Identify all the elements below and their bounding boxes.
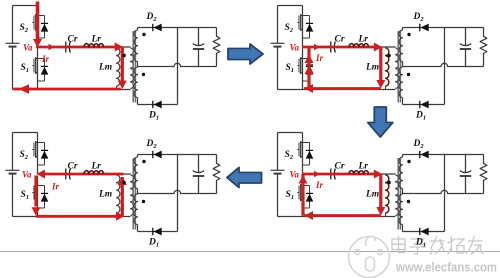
capacitor Co curved plate (stage 2) (460, 44, 471, 46)
red arrowhead on bottom return (305, 211, 314, 220)
wire Lr to primary node A (stage 1) (104, 46, 131, 48)
svg-text:Lm: Lm (365, 63, 379, 73)
polarity dot primary (stage 1) (122, 54, 125, 57)
wire left rail lower (stage 4) (277, 174, 279, 217)
svg-text:Va: Va (23, 43, 33, 53)
switch S1 MOSFET with body diode (stage 1) (32, 49, 48, 82)
capacitor Co top lead (stage 3) (198, 155, 200, 173)
diode D2 (stage 1) (154, 24, 162, 32)
diode S1 body diode under red (stage 2) (306, 65, 314, 73)
wire Cr to Lr (stage 1) (71, 46, 84, 48)
capacitor Co curved plate (stage 4) (460, 171, 471, 173)
wire bottom (stage 4) (278, 216, 396, 218)
capacitor Co top lead (stage 1) (198, 28, 200, 46)
polarity dot primary (stage 4) (387, 181, 390, 184)
diode D2 cathode bar (stage 1) (152, 24, 154, 31)
wire bottom output rail (stage 4) (403, 231, 445, 233)
red resonant current path, stage 1 (14, 2, 127, 94)
wire left rail upper (stage 2) (277, 6, 279, 44)
red resonant current path, stage 3 (22, 170, 127, 221)
red small arrowhead Ir direction (314, 171, 320, 177)
svg-text:Lr: Lr (91, 35, 102, 45)
capacitor Cr left plate (stage 4) (330, 169, 332, 180)
svg-text:Lr: Lr (91, 162, 102, 172)
inductor Lm (stage 3) (117, 175, 120, 213)
wire centre-tap rail with crossover hop (stage 4) (403, 190, 484, 193)
wire node Va to Cr (stage 4) (303, 173, 330, 175)
wire Lr to primary node A (stage 2) (369, 46, 396, 48)
wire S1 source to bottom (stage 2) (302, 80, 304, 90)
wire secondary centre junction (stage 2) (402, 62, 404, 67)
capacitor Co top lead (stage 2) (465, 28, 467, 46)
resistor RL load (stage 2) (480, 28, 487, 67)
battery Vdc short plate (stage 3) (9, 173, 17, 175)
wire bottom (stage 1) (13, 89, 131, 91)
wire bottom (stage 2) (278, 89, 396, 91)
red path: Va through Cr and Lr (302, 173, 374, 176)
red arrowhead up 1 (305, 55, 314, 64)
polarity dot primary overlay (stage 1) (122, 54, 125, 57)
wire S2 source to node Va (stage 3) (37, 164, 39, 175)
wire secondary centre junction (stage 4) (402, 189, 404, 194)
inductor Lr coil overlay (stage 3) (84, 171, 104, 174)
transformer primary winding (stage 1) (131, 48, 134, 89)
wire left rail lower (stage 1) (12, 47, 14, 90)
polarity dot secondary lower (stage 3) (142, 200, 145, 203)
red path: bottom toward transformer (36, 215, 116, 218)
wire centre-tap rail with crossover hop (stage 1) (138, 63, 217, 66)
wire left rail lower (stage 3) (12, 174, 14, 217)
capacitor Cr left plate (stage 3) (65, 169, 67, 180)
switch S2 MOSFET with body diode (stage 2) (297, 6, 313, 39)
transformer core line 1 (stage 3) (132, 158, 134, 230)
wire secondary top stub (stage 3) (137, 155, 139, 158)
wire S1 source to bottom (stage 4) (302, 207, 304, 217)
capacitor Cr right plate (stage 3) (69, 169, 70, 180)
svg-text:Ir: Ir (51, 182, 60, 192)
wire diode-side vertical (stage 1) (177, 28, 179, 105)
wire Lr to primary node A (stage 4) (369, 173, 396, 175)
svg-text:Va: Va (22, 170, 32, 180)
wire node Va to Cr (stage 2) (303, 46, 330, 48)
wire centre-tap rail with crossover hop (stage 2) (403, 63, 484, 66)
red arrowhead at Lm bottom (376, 80, 385, 89)
blue sequence arrow right (stage1 to stage2) (228, 44, 263, 64)
wire Lr to primary node A (stage 3) (104, 173, 131, 175)
diode D1 cathode bar (stage 1) (152, 101, 154, 108)
wire bottom output rail (stage 1) (138, 104, 178, 106)
red path: bottom return to source (14, 88, 122, 91)
svg-text:Va: Va (290, 170, 300, 180)
red path: down through S1 (34, 176, 37, 207)
wire diode-side vertical (stage 4) (444, 155, 446, 232)
wire Lm bottom stub (stage 4) (385, 213, 387, 217)
wire top (stage 2) (278, 5, 303, 7)
inductor Lr coil overlay (stage 1) (84, 44, 104, 47)
red arrowhead at node Va (33, 39, 42, 48)
transformer primary winding (stage 3) (131, 175, 134, 216)
red path: up through S1 branch (301, 174, 304, 216)
wire secondary bottom stub (stage 4) (402, 225, 404, 232)
red arrowhead into node A (374, 43, 383, 52)
wire S1 source to bottom (stage 1) (37, 80, 39, 90)
red path: bottom return (304, 87, 381, 90)
polarity dot secondary lower (stage 4) (407, 200, 410, 203)
wire secondary top stub (stage 1) (137, 28, 139, 31)
diode D1 (stage 2) (421, 101, 429, 109)
wire left rail lower (stage 2) (277, 47, 279, 90)
svg-text:www.elecfans.com: www.elecfans.com (395, 260, 497, 275)
capacitor Co top lead (stage 4) (465, 155, 467, 173)
red arrowhead up (299, 175, 308, 184)
wire top output rail (stage 2) (403, 27, 484, 29)
capacitor Co flat plate (stage 1) (193, 48, 204, 50)
wire top output rail (stage 4) (403, 154, 484, 156)
transformer core line 2 (stage 4) (399, 158, 401, 230)
inductor Lm (stage 4) (386, 175, 389, 213)
red path: down through S2 (36, 2, 40, 40)
capacitor Cr right plate (stage 4) (334, 169, 335, 180)
capacitor Co flat plate (stage 4) (460, 175, 471, 177)
capacitor Co bottom lead (stage 3) (198, 176, 200, 194)
inductor Lr (stage 2) (349, 44, 369, 47)
wire node Va to Cr (stage 1) (38, 46, 65, 48)
red small arrowhead Ir direction (314, 44, 320, 50)
polarity dot primary (stage 2) (387, 54, 390, 57)
battery Vdc short plate (stage 2) (274, 46, 282, 48)
diode D2 (stage 2) (421, 24, 429, 32)
watermark text glyphs (电子发烧友 approximation) (392, 237, 483, 255)
capacitor Cr left plate (stage 1) (65, 42, 67, 53)
svg-text:Ir: Ir (41, 54, 50, 64)
wire secondary bottom stub (stage 2) (402, 98, 404, 105)
red small arrowhead Ir direction (49, 44, 55, 50)
svg-text:Lm: Lm (365, 190, 379, 200)
switch S1 MOSFET with body diode (stage 2) (297, 49, 313, 82)
capacitor Co curved plate (stage 3) (193, 171, 204, 173)
polarity dot primary overlay (stage 2) (387, 54, 390, 57)
red arrowhead on bottom return (305, 84, 314, 93)
transformer secondary winding lower (stage 4) (399, 194, 403, 225)
wire bottom (stage 3) (13, 216, 131, 218)
wire left rail upper (stage 1) (12, 6, 14, 44)
red arrowhead pointing to battery (19, 84, 30, 94)
wire centre-tap rail with crossover hop (stage 3) (138, 190, 217, 193)
polarity dot secondary lower (stage 2) (407, 73, 410, 76)
wire left rail upper (stage 3) (12, 133, 14, 171)
red arrowhead into node A (115, 43, 124, 52)
wire top (stage 4) (278, 132, 303, 134)
capacitor Cr right plate (stage 2) (334, 42, 335, 53)
wire top (stage 1) (13, 5, 38, 7)
red arrowhead at Lm bottom (376, 207, 385, 216)
inductor Lm (stage 1) (117, 48, 120, 86)
diode D1 cathode bar (stage 4) (419, 228, 421, 235)
red path: up through magnetizing branch (121, 177, 124, 216)
red arrowhead at node Va (37, 170, 46, 179)
diode D1 cathode bar (stage 2) (419, 101, 421, 108)
polarity dot secondary lower (stage 1) (142, 73, 145, 76)
diode D2 (stage 4) (421, 151, 429, 159)
wire S2 source to node Va (stage 2) (302, 37, 304, 48)
svg-text:Lm: Lm (98, 63, 112, 73)
diode D1 (stage 3) (154, 228, 162, 236)
inductor Lr (stage 4) (349, 171, 369, 174)
red path: down through Lm (379, 47, 382, 81)
capacitor Co bottom lead (stage 1) (198, 49, 200, 67)
wire S2 source to node Va (stage 4) (302, 164, 304, 175)
svg-text:Ir: Ir (315, 180, 324, 190)
switch S2 MOSFET with body diode (stage 1) (32, 6, 48, 39)
transformer secondary winding lower (stage 3) (134, 194, 138, 225)
switch S1 MOSFET with body diode (stage 4) (297, 176, 313, 209)
wire S2 source to node Va (stage 1) (37, 37, 39, 48)
diode S1 cathode bar under red (stage 2) (306, 64, 313, 66)
inductor Lm coil overlay (stage 2) (386, 48, 389, 86)
diode D1 (stage 1) (154, 101, 162, 109)
red path: down through Lm (379, 174, 382, 208)
polarity dot primary (stage 3) (122, 181, 125, 184)
wire Cr to Lr (stage 2) (336, 46, 349, 48)
wire secondary centre junction (stage 1) (137, 62, 139, 67)
wire bottom output rail (stage 3) (138, 231, 178, 233)
capacitor Co curved plate (stage 1) (193, 44, 204, 46)
diode D2 cathode bar (stage 2) (419, 24, 421, 31)
red path: bottom return (304, 214, 381, 217)
transformer secondary winding lower (stage 1) (134, 67, 138, 98)
transformer secondary winding upper (stage 4) (399, 157, 403, 189)
switch S1 MOSFET with body diode (stage 3) (32, 176, 48, 209)
wire secondary top stub (stage 4) (402, 155, 404, 158)
transformer core line 1 (stage 4) (397, 158, 399, 230)
inductor Lr (stage 1) (84, 44, 104, 47)
wire Lm bottom stub (stage 1) (116, 86, 118, 90)
wire Cr to Lr (stage 4) (336, 173, 349, 175)
transformer secondary winding upper (stage 3) (134, 157, 138, 189)
svg-text:Cr: Cr (335, 162, 345, 172)
wire top output rail (stage 1) (138, 27, 217, 29)
red path: down through magnetizing branch (121, 47, 124, 81)
svg-text:Cr: Cr (68, 35, 78, 45)
capacitor Co flat plate (stage 3) (193, 175, 204, 177)
transformer core line 2 (stage 2) (399, 31, 401, 103)
polarity dot primary overlay (stage 4) (387, 181, 390, 184)
svg-text:Lm: Lm (98, 190, 112, 200)
red arrowhead up at node A (118, 177, 127, 186)
battery Vdc long plate (stage 3) (6, 169, 20, 171)
transformer core line 1 (stage 2) (397, 31, 399, 103)
svg-text:Va: Va (290, 43, 300, 53)
red path: up through S1 branch (307, 47, 310, 89)
transformer core line 1 (stage 1) (132, 31, 134, 103)
red arrowhead up 2 (305, 66, 314, 75)
wire secondary top stub (stage 2) (402, 28, 404, 31)
wire Cr to Lr (stage 3) (71, 173, 84, 175)
red path: Va through Cr and Lr (36, 46, 120, 49)
capacitor Cr right plate (stage 1) (69, 42, 70, 53)
polarity dot secondary upper (stage 3) (142, 160, 145, 163)
svg-text:Ir: Ir (315, 53, 324, 63)
watermark logo circle (349, 236, 390, 277)
transformer core line 2 (stage 3) (134, 158, 136, 230)
svg-text:Cr: Cr (68, 162, 78, 172)
red path: Va through Cr and Lr (302, 46, 374, 49)
wire secondary bottom stub (stage 1) (137, 98, 139, 105)
transformer secondary winding lower (stage 2) (399, 67, 403, 98)
transformer secondary winding upper (stage 2) (399, 30, 403, 62)
red resonant current path (290, 170, 391, 221)
polarity dot secondary upper (stage 4) (407, 160, 410, 163)
blue sequence arrow down (stage2 to stage4) (368, 107, 393, 137)
resistor RL load (stage 1) (213, 28, 220, 67)
resistor RL load (stage 3) (213, 155, 220, 194)
diode D1 cathode bar (stage 3) (152, 228, 154, 235)
inductor Lm (stage 2) (386, 48, 389, 86)
transformer core line 2 (stage 1) (134, 31, 136, 103)
red path: Lr and Cr back toward Va (45, 173, 124, 176)
polarity dot primary overlay (stage 3) (122, 181, 125, 184)
red arrowhead on bottom segment (116, 212, 125, 221)
battery Vdc short plate (stage 4) (274, 173, 282, 175)
wire node Va to Cr (stage 3) (38, 173, 65, 175)
inductor Lr (stage 3) (84, 171, 104, 174)
wire secondary centre junction (stage 3) (137, 189, 139, 194)
diode D2 cathode bar (stage 4) (419, 151, 421, 158)
battery Vdc long plate (stage 1) (6, 42, 20, 44)
battery Vdc short plate (stage 1) (9, 46, 17, 48)
polarity dot secondary upper (stage 1) (142, 33, 145, 36)
wire diode-side vertical (stage 2) (444, 28, 446, 105)
wire diode-side vertical (stage 3) (177, 155, 179, 232)
wire left rail upper (stage 4) (277, 133, 279, 171)
inductor Lr coil overlay (stage 2) (349, 44, 369, 47)
transformer secondary winding upper (stage 1) (134, 30, 138, 62)
watermark separator line (0, 251, 500, 253)
battery Vdc long plate (stage 2) (271, 42, 285, 44)
wire top output rail (stage 3) (138, 154, 217, 156)
capacitor Co bottom lead (stage 4) (465, 176, 467, 194)
blue sequence arrow left (stage4 to stage3) (227, 168, 262, 188)
red arrowhead into node A (374, 170, 383, 179)
polarity dot secondary upper (stage 2) (407, 33, 410, 36)
resistor RL load (stage 4) (480, 155, 487, 194)
wire secondary bottom stub (stage 3) (137, 225, 139, 232)
red arrowhead at primary bottom (118, 81, 127, 90)
transformer primary winding (stage 4) (396, 175, 399, 216)
wire Lm bottom stub (stage 2) (385, 86, 387, 90)
inductor Lr coil overlay (stage 4) (349, 171, 369, 174)
transformer primary winding (stage 2) (396, 48, 399, 89)
switch S2 MOSFET with body diode (stage 4) (297, 133, 313, 166)
diode D2 cathode bar (stage 3) (152, 151, 154, 158)
inductor Lm coil overlay (stage 4) (386, 175, 389, 213)
capacitor Co flat plate (stage 2) (460, 48, 471, 50)
wire Lm bottom stub (stage 3) (116, 213, 118, 217)
capacitor Co bottom lead (stage 2) (465, 49, 467, 67)
svg-text:Cr: Cr (335, 35, 345, 45)
red arrowhead at S1 bottom (32, 207, 41, 216)
battery Vdc long plate (stage 4) (271, 169, 285, 171)
wire top (stage 3) (13, 132, 38, 134)
capacitor Cr left plate (stage 2) (330, 42, 332, 53)
wire bottom output rail (stage 2) (403, 104, 445, 106)
diode D2 (stage 3) (154, 151, 162, 159)
switch S2 MOSFET with body diode (stage 3) (32, 133, 48, 166)
diode D1 (stage 4) (421, 228, 429, 236)
red resonant current path (290, 43, 391, 94)
wire S1 source to bottom (stage 3) (37, 207, 39, 217)
